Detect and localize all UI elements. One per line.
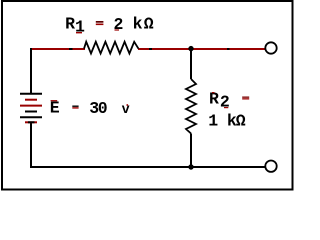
svg-text:Ω: Ω (144, 15, 154, 34)
svg-text:Ω: Ω (236, 112, 246, 131)
svg-text:2: 2 (220, 93, 230, 112)
svg-text:R: R (65, 14, 75, 33)
svg-text:2: 2 (114, 15, 124, 34)
svg-text:E: E (50, 98, 60, 117)
svg-text:v: v (122, 103, 130, 118)
svg-text:k: k (133, 14, 143, 33)
svg-text:1: 1 (208, 112, 218, 131)
svg-text:1: 1 (75, 18, 85, 37)
svg-text:0: 0 (98, 99, 108, 118)
